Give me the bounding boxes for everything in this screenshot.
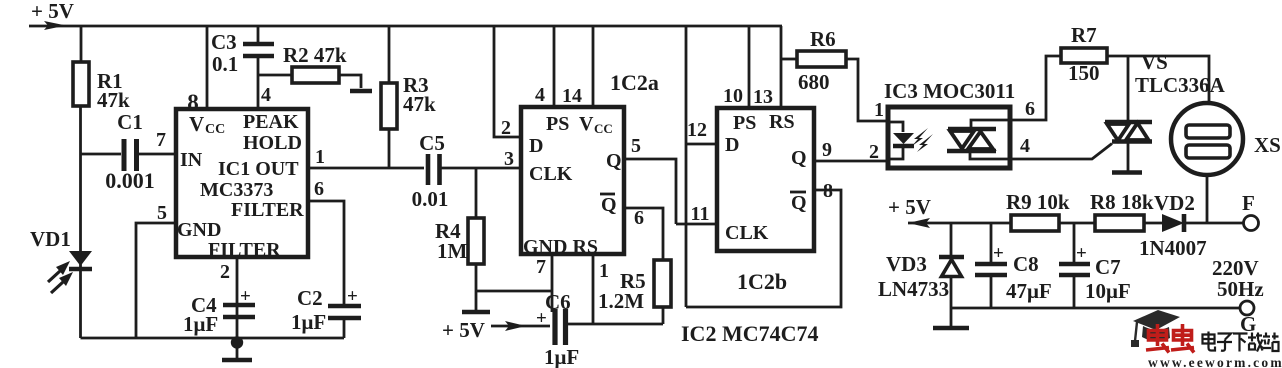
IC3 internal LED <box>893 133 914 144</box>
svg-text:C3: C3 <box>211 30 237 54</box>
wire IC2a pin1 RS down <box>592 254 595 324</box>
svg-text:D: D <box>725 134 739 156</box>
svg-text:6: 6 <box>314 178 324 200</box>
IC3 pin6 wire <box>971 120 1010 129</box>
svg-text:2: 2 <box>220 261 230 283</box>
svg-text:12: 12 <box>687 119 707 141</box>
svg-text:GND: GND <box>177 219 221 241</box>
op-amp IC1 MC3373 box <box>176 109 308 257</box>
svg-text:2: 2 <box>501 117 511 139</box>
wire R8 to VD2 <box>1144 222 1162 225</box>
triac VS top bar <box>1105 120 1152 125</box>
wire R2 left lead <box>258 74 292 77</box>
flip-flop IC2b box <box>717 108 814 251</box>
capacitor C3 <box>243 44 274 56</box>
svg-text:MC3373: MC3373 <box>200 179 273 201</box>
wire R4 bottom lead <box>475 264 478 311</box>
wire IC1 pin6 to C2 <box>308 201 344 305</box>
svg-text:TLC336A: TLC336A <box>1135 73 1226 97</box>
wire VS MT2 <box>1127 56 1130 122</box>
svg-text:R9 10k: R9 10k <box>1006 190 1070 214</box>
IC3 internal LED anode wire <box>888 122 903 132</box>
wire R4 to IC2a pin7 <box>476 290 552 293</box>
svg-text:R6: R6 <box>810 27 836 51</box>
svg-text:0.001: 0.001 <box>105 168 155 193</box>
svg-text:VD1: VD1 <box>30 227 71 251</box>
triac VS bottom bar <box>1112 139 1152 144</box>
svg-text:IC3 MOC3011: IC3 MOC3011 <box>884 79 1015 103</box>
svg-text:8: 8 <box>823 180 833 202</box>
zener diode VD3 <box>950 223 953 256</box>
wire XS bottom to F line <box>1206 175 1209 223</box>
svg-text:Q: Q <box>791 147 807 169</box>
IC3 opto arrows <box>912 128 928 146</box>
optocoupler IC3 MOC3011 box <box>888 107 1010 168</box>
wire C3 top lead from rail <box>257 26 260 42</box>
wire IC2a Qbar pin6 to R5 <box>624 208 663 260</box>
wire C6 right to R5 bottom <box>568 323 663 326</box>
svg-text:G: G <box>1240 312 1256 336</box>
svg-text:47μF: 47μF <box>1006 279 1052 303</box>
wire IC1 pin2 down <box>236 257 239 340</box>
watermark graduation cap <box>1133 310 1180 330</box>
svg-text:14: 14 <box>562 85 582 107</box>
svg-text:1C2b: 1C2b <box>737 269 787 294</box>
svg-text:CC: CC <box>594 121 613 136</box>
svg-text:1: 1 <box>315 146 325 168</box>
resistor R4 <box>468 218 484 264</box>
IC3 pin4 wire inside <box>970 151 1010 159</box>
watermark text zhan <box>1263 333 1279 352</box>
resistor R3 <box>381 83 397 129</box>
IC3 internal LED cathode wire <box>888 146 903 159</box>
svg-text:6: 6 <box>1025 98 1035 120</box>
svg-text:F: F <box>1242 191 1255 215</box>
IC3 internal triac right triangle <box>968 132 993 150</box>
flip-flop IC2a box <box>521 107 624 254</box>
wire long vertical from rail to D and feedback bottom <box>685 26 688 307</box>
wire IC2a Q pin5 <box>624 159 676 224</box>
resistor R5 <box>654 260 671 307</box>
svg-text:LN4733: LN4733 <box>878 277 949 301</box>
svg-text:D: D <box>529 135 543 157</box>
svg-text:1N4007: 1N4007 <box>1139 236 1207 260</box>
wire R1 bottom lead down to VD1 and bottom rail <box>79 106 82 338</box>
triac VS left triangle <box>1107 124 1129 141</box>
wire C1 right to IC1 pin7 <box>139 153 176 156</box>
wire bottom power rail to G <box>951 307 1240 310</box>
wire +5V arrow to C6 <box>491 325 550 328</box>
capacitor C6 <box>555 309 566 345</box>
svg-text:C8: C8 <box>1013 252 1039 276</box>
socket XS slot upper <box>1186 125 1230 138</box>
wire +5V top rail <box>29 25 782 28</box>
svg-text:FILTER: FILTER <box>208 239 281 261</box>
svg-text:PS: PS <box>546 113 569 135</box>
svg-text:47k: 47k <box>403 92 436 116</box>
svg-text:1μF: 1μF <box>291 310 326 334</box>
svg-text:+ 5V: + 5V <box>31 0 74 23</box>
wire IC2b Q pin9 to IC3 <box>814 160 888 163</box>
diode VD2 <box>1162 214 1184 232</box>
capacitor C2 <box>328 306 361 318</box>
svg-text:8: 8 <box>187 90 199 115</box>
svg-text:680: 680 <box>798 70 830 94</box>
svg-text:13: 13 <box>753 86 773 108</box>
wire C1 left <box>81 153 122 156</box>
wire IC2a pin14 from rail <box>592 26 595 107</box>
wire IC2a pin2 from rail <box>494 26 521 137</box>
wire VD3 bottom to ground <box>950 277 953 327</box>
svg-text:XS: XS <box>1254 133 1281 157</box>
svg-text:CLK: CLK <box>529 163 573 185</box>
svg-text:C2: C2 <box>297 286 323 310</box>
svg-text:R8 18k: R8 18k <box>1090 190 1154 214</box>
svg-text:GND RS: GND RS <box>523 236 598 258</box>
svg-text:2: 2 <box>869 141 879 163</box>
svg-text:1.2M: 1.2M <box>598 289 644 313</box>
watermark text xia <box>1233 334 1248 352</box>
socket XS circle <box>1171 103 1243 175</box>
wire IC1 pin1 OUT to C5 <box>308 167 424 170</box>
wire IC2a pin7 GND down to C6 <box>551 254 554 312</box>
svg-text:1C2a: 1C2a <box>610 70 659 95</box>
wire top rail arrow <box>44 21 66 30</box>
wire IC2b pin10 from rail <box>748 26 751 108</box>
svg-text:IN: IN <box>180 149 203 171</box>
svg-text:4: 4 <box>535 84 545 106</box>
svg-text:VD3: VD3 <box>886 252 927 276</box>
wire IC3 pin6 up to R7 <box>1010 56 1061 120</box>
svg-text:150: 150 <box>1068 61 1100 85</box>
svg-text:+ 5V: + 5V <box>888 195 931 219</box>
wire R1 top lead <box>80 26 83 62</box>
svg-text:+: + <box>993 243 1004 264</box>
svg-text:C1: C1 <box>117 110 143 134</box>
resistor R8 <box>1095 215 1144 231</box>
wire R3 bottom lead <box>388 129 391 168</box>
svg-text:FILTER: FILTER <box>231 199 304 221</box>
svg-text:Q: Q <box>791 192 807 214</box>
ground below junction <box>236 342 239 358</box>
wire R2 right lead to ground <box>340 75 361 88</box>
terminal G circle <box>1240 301 1254 315</box>
svg-text:7: 7 <box>536 256 546 278</box>
watermark chongchong char 2 <box>1171 324 1194 353</box>
wire D pin12 <box>686 143 717 146</box>
resistor R9 <box>1011 215 1059 231</box>
ground R2 <box>350 89 372 94</box>
svg-text:HOLD: HOLD <box>243 132 302 154</box>
svg-text:1: 1 <box>599 260 609 282</box>
wire IC2b pin13 from rail <box>780 26 783 108</box>
wire R3 top lead from rail <box>388 26 391 83</box>
svg-text:5: 5 <box>631 135 641 157</box>
capacitor C5 <box>428 154 440 185</box>
svg-text:10: 10 <box>723 85 743 107</box>
wire R5 bottom lead <box>662 307 665 324</box>
wire R9 to R8 <box>1059 222 1095 225</box>
svg-text:R2 47k: R2 47k <box>283 43 347 67</box>
ground R4 <box>462 310 490 315</box>
svg-text:V: V <box>579 113 594 135</box>
wire IC2a pin4 from rail <box>553 26 556 107</box>
ground VD3 <box>933 326 969 331</box>
svg-text:IC1 OUT: IC1 OUT <box>218 158 299 180</box>
wire R6 right lead to IC3 pin1 <box>846 59 888 121</box>
wire VS MT1 <box>1127 141 1130 171</box>
terminal F circle <box>1244 216 1259 231</box>
svg-text:50Hz: 50Hz <box>1217 277 1264 301</box>
svg-text:3: 3 <box>504 148 514 170</box>
svg-text:4: 4 <box>1020 135 1030 157</box>
svg-text:7: 7 <box>156 129 166 151</box>
svg-text:9: 9 <box>822 139 832 161</box>
svg-text:C5: C5 <box>419 131 445 155</box>
svg-text:V: V <box>189 112 204 136</box>
watermark chongchong char 1 <box>1146 324 1169 353</box>
IC3 internal triac top bar <box>948 127 996 132</box>
wire VD2 to F terminal <box>1186 222 1243 225</box>
watermark text zai <box>1248 333 1263 352</box>
svg-text:+ 5V: + 5V <box>442 318 485 342</box>
watermark text zi <box>1217 334 1232 351</box>
svg-text:1μF: 1μF <box>183 312 218 336</box>
wire bottom rail left <box>81 337 345 340</box>
wire R7 right to XS top <box>1107 56 1209 104</box>
svg-text:1: 1 <box>874 99 884 121</box>
svg-text:VD2: VD2 <box>1154 191 1195 215</box>
svg-text:IC2 MC74C74: IC2 MC74C74 <box>681 321 819 346</box>
wire C3 bottom to pin4 junction <box>257 56 260 109</box>
wire R4 top lead <box>475 168 478 218</box>
svg-text:Q: Q <box>601 194 617 216</box>
socket XS slot lower <box>1186 145 1230 158</box>
svg-text:0.01: 0.01 <box>412 187 449 211</box>
triac VS right triangle <box>1126 123 1149 140</box>
wire IC1 pin5 GND <box>136 223 176 338</box>
IC3 internal triac bottom bar <box>947 149 996 154</box>
svg-text:PS: PS <box>733 112 756 134</box>
wire +5V arrow <box>908 222 1011 225</box>
capacitor C4 <box>223 305 255 317</box>
svg-text:www.eeworm.com: www.eeworm.com <box>1148 355 1282 368</box>
svg-text:5: 5 <box>157 202 167 224</box>
IC3 internal triac left triangle <box>950 131 974 149</box>
svg-text:47k: 47k <box>97 88 130 112</box>
svg-text:VS: VS <box>1141 50 1168 74</box>
svg-text:11: 11 <box>691 203 710 225</box>
wire IC1 pin8 from rail <box>206 26 209 109</box>
wire IC3 pin4 to VS gate <box>1010 144 1112 160</box>
svg-text:RS: RS <box>769 111 795 133</box>
node junction dot on bottom rail <box>231 336 243 348</box>
svg-text:+: + <box>240 286 251 307</box>
resistor R1 <box>73 62 89 106</box>
svg-text:+: + <box>1076 243 1087 264</box>
svg-text:PEAK: PEAK <box>243 111 299 133</box>
svg-text:+: + <box>347 286 358 307</box>
resistor R7 <box>1061 48 1107 63</box>
wire C2 bottom lead <box>343 318 346 338</box>
capacitor C8 <box>990 223 993 262</box>
svg-text:1μF: 1μF <box>544 345 579 368</box>
wire C5 right to IC2a pin3 <box>440 167 521 170</box>
svg-text:4: 4 <box>261 84 271 106</box>
resistor R2 <box>292 67 339 83</box>
svg-text:10μF: 10μF <box>1085 279 1131 303</box>
photodiode VD1 light arrows <box>48 271 60 282</box>
svg-text:C7: C7 <box>1095 255 1121 279</box>
capacitor C7 <box>1073 223 1076 262</box>
svg-text:Q: Q <box>606 150 622 172</box>
svg-text:R7: R7 <box>1071 23 1097 47</box>
svg-text:6: 6 <box>634 207 644 229</box>
wire CLK pin11 <box>676 223 717 226</box>
resistor R6 <box>797 51 846 67</box>
svg-text:1M: 1M <box>437 239 468 263</box>
svg-text:C6: C6 <box>545 290 571 314</box>
svg-text:CC: CC <box>205 122 225 137</box>
watermark text dian <box>1203 332 1216 351</box>
capacitor C1 <box>124 139 137 171</box>
wire R6 left lead <box>781 58 797 61</box>
VS MT1 terminal bar <box>1112 170 1142 175</box>
svg-text:CLK: CLK <box>725 222 769 244</box>
photodiode VD1 <box>69 251 92 266</box>
wire feedback bottom to pin8 <box>686 190 841 307</box>
svg-text:0.1: 0.1 <box>212 52 238 76</box>
